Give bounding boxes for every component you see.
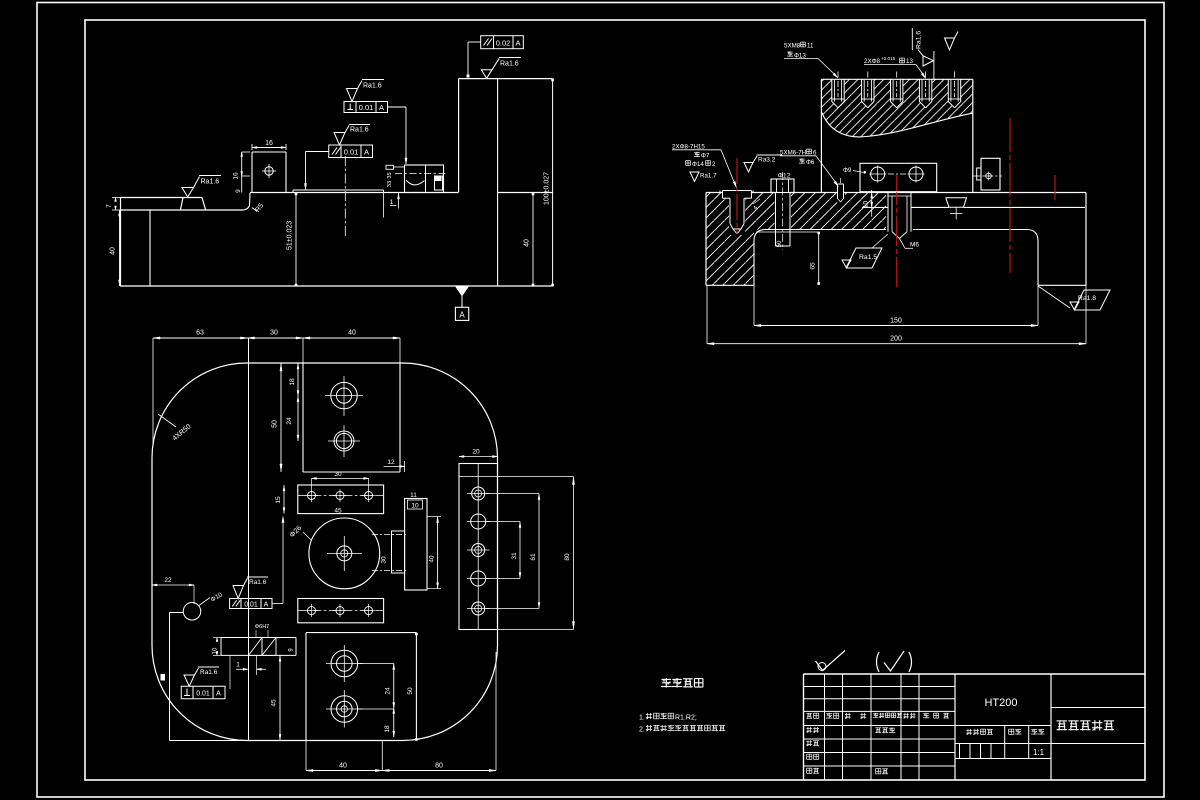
- parallelism frame 0.01 A: [329, 145, 373, 158]
- svg-text:1: 1: [236, 662, 240, 669]
- stop block: [251, 152, 253, 193]
- svg-text:5XM8: 5XM8: [784, 43, 801, 50]
- svg-text:16: 16: [233, 172, 240, 180]
- svg-text:Ra1.6: Ra1.6: [200, 669, 218, 676]
- dim 51±0.023: [295, 193, 297, 286]
- svg-text:61: 61: [530, 553, 537, 561]
- dim 40 (right step height): [532, 193, 534, 287]
- upper boss circle 1 (washer): [331, 382, 357, 408]
- base top band lower line: [862, 206, 888, 208]
- dim 50 (upper boss): [280, 363, 282, 472]
- dim 45 (bottom left): [279, 655, 281, 740]
- dims 24/18 (lower boss): [393, 664, 395, 738]
- svg-text:45: 45: [334, 508, 342, 515]
- svg-text:Ra1.6: Ra1.6: [363, 83, 382, 90]
- svg-text:35: 35: [387, 172, 393, 178]
- countersunk screw right: [946, 198, 967, 208]
- dim 18/24 (upper boss): [297, 363, 299, 441]
- Ra3.2 flag: [744, 163, 753, 173]
- corner notch edges: [169, 613, 171, 741]
- base bottom edges (feet): [706, 284, 754, 286]
- svg-text:50: 50: [777, 240, 783, 247]
- dim 40 (bushing plate): [437, 517, 439, 589]
- svg-text:Φ6: Φ6: [806, 159, 815, 166]
- red centerline right pin: [1009, 118, 1011, 273]
- svg-text:30: 30: [270, 330, 278, 337]
- key slot section bar: [221, 637, 296, 639]
- svg-text:40: 40: [524, 239, 531, 247]
- red short centerline far right: [1054, 175, 1056, 200]
- central boss circle Φ26: [309, 518, 380, 589]
- svg-text:22: 22: [164, 577, 172, 584]
- red centerline middle: [896, 175, 898, 290]
- svg-text:33: 33: [387, 181, 393, 187]
- svg-text:40: 40: [110, 247, 117, 255]
- svg-text:0.01: 0.01: [196, 691, 210, 698]
- jig plate 5 holes: [459, 464, 498, 630]
- svg-text:+0.015: +0.015: [881, 56, 896, 61]
- svg-text:51±0.023: 51±0.023: [287, 221, 294, 250]
- svg-text:A: A: [216, 691, 221, 698]
- dim 22: [152, 584, 194, 586]
- dim 31: [519, 522, 521, 579]
- svg-text:30: 30: [334, 471, 342, 478]
- lower guide plate (3 holes): [298, 599, 384, 623]
- pocket outline: [754, 230, 886, 286]
- small flag top-right corner: [945, 38, 955, 50]
- svg-text:15: 15: [275, 496, 282, 504]
- svg-text:45: 45: [271, 699, 278, 707]
- perpendicularity frame 0.01 A: [344, 102, 388, 113]
- title block table: [804, 673, 1146, 675]
- Ra1.6 flag above parallelism frame: [334, 133, 345, 146]
- bushing mount plate right: [405, 499, 427, 591]
- svg-text:40: 40: [348, 330, 356, 337]
- clamp plate with two rivets: [860, 163, 937, 191]
- dim 20: [459, 456, 498, 458]
- svg-text:0.01: 0.01: [244, 602, 258, 609]
- svg-text:Ra1.7: Ra1.7: [700, 173, 717, 180]
- Ra1.5 flag parallelogram: [846, 248, 882, 268]
- svg-text:Φ14: Φ14: [692, 161, 704, 168]
- dim 30 (guide plate): [312, 477, 369, 479]
- svg-text:A: A: [364, 148, 369, 157]
- perpendicularity frame 0.01 A (plan): [181, 686, 225, 699]
- label M6: [900, 239, 906, 249]
- parallelism frame 0.02 A (top): [481, 36, 524, 49]
- tall column top edge: [459, 78, 553, 80]
- svg-text:11: 11: [410, 492, 417, 499]
- M6 stud small: [837, 184, 839, 199]
- dim 10 (slot): [213, 637, 221, 639]
- body bottom edge: [120, 285, 553, 287]
- svg-text:1:1: 1:1: [1033, 748, 1045, 757]
- bracketed check symbol ( v ): [877, 652, 880, 672]
- svg-text:1.: 1.: [639, 715, 645, 722]
- upper guide plate (3 holes): [298, 485, 384, 514]
- dim 61: [538, 494, 540, 609]
- cap screw 4 in counterbore: [918, 79, 920, 101]
- body left edge: [120, 198, 122, 287]
- screw counterbores (blanked): [832, 79, 844, 101]
- svg-text:2.: 2.: [639, 727, 645, 734]
- dim 7 (left plate): [112, 197, 120, 199]
- svg-text:A: A: [459, 311, 465, 320]
- dim 65: [818, 232, 820, 284]
- Ra1.6 flag on column top: [481, 70, 492, 79]
- top dim extension lines: [152, 338, 154, 445]
- top dimension line 63/30/40: [153, 337, 400, 339]
- svg-text:A: A: [379, 103, 384, 112]
- svg-text:16: 16: [265, 140, 273, 147]
- svg-text:R1.R2;: R1.R2;: [675, 715, 697, 722]
- svg-text:Φ7: Φ7: [701, 153, 710, 160]
- drill bushing assembly: [405, 165, 444, 193]
- 4XR50 label: [158, 414, 176, 427]
- svg-text:Ra1.6: Ra1.6: [201, 179, 220, 186]
- dim 16/9 (block left): [241, 152, 243, 193]
- base right edge: [1085, 193, 1087, 286]
- long vertical edge x=248.5: [248, 338, 250, 741]
- svg-text:HT200: HT200: [984, 697, 1017, 709]
- leader up from frame: [272, 603, 283, 605]
- svg-text:0.01: 0.01: [359, 103, 374, 112]
- svg-text:2XΦ8: 2XΦ8: [864, 58, 881, 65]
- cells: 阶段标记 重量 比例: [967, 729, 969, 735]
- svg-text:13: 13: [906, 58, 913, 65]
- blank holes in base: [722, 190, 753, 199]
- svg-text:Φ12: Φ12: [778, 173, 791, 180]
- svg-text:7: 7: [106, 204, 113, 208]
- Ra1.6 flag above perpendicularity frame: [347, 89, 358, 102]
- bushing centerline: [395, 173, 448, 175]
- Ra1.6 flag above frame: [233, 586, 244, 599]
- svg-text:10: 10: [863, 201, 870, 209]
- svg-text:18: 18: [289, 378, 296, 386]
- svg-text:50: 50: [272, 420, 279, 428]
- cap screw 1 in counterbore: [831, 79, 833, 101]
- svg-text:A: A: [264, 602, 269, 609]
- M6 tapped hole center: [887, 193, 889, 232]
- surface finish check symbol with circle: [818, 663, 826, 671]
- svg-text:100±0.027: 100±0.027: [544, 172, 551, 205]
- svg-text:24: 24: [385, 687, 392, 695]
- svg-text:Ra3.2: Ra3.2: [758, 157, 776, 164]
- svg-text:12: 12: [387, 459, 395, 466]
- lower boss circle 2 (screw): [331, 696, 358, 723]
- dim 200: [706, 285, 708, 343]
- base top surface: [706, 192, 723, 194]
- svg-text:Ra1.6: Ra1.6: [249, 579, 267, 586]
- small solid mark: [161, 674, 166, 681]
- inner step vertical edge: [149, 210, 151, 286]
- svg-text:Φ9: Φ9: [843, 167, 852, 174]
- svg-text:18: 18: [384, 725, 391, 733]
- svg-text:40: 40: [339, 763, 347, 770]
- svg-text:24: 24: [286, 417, 293, 425]
- label Φ26: [303, 532, 311, 540]
- red centerline screw: [736, 158, 738, 234]
- drill template block outline: [821, 78, 972, 80]
- cap screw 3 in counterbore: [890, 79, 892, 101]
- hex bolt Φ12: [771, 179, 794, 193]
- dim 16 (block width): [252, 147, 286, 149]
- leader line to bushing from perpendicularity frame: [388, 106, 407, 108]
- cap screw 2 in counterbore: [861, 79, 863, 101]
- svg-text:65: 65: [810, 262, 817, 270]
- socket screw body: [719, 191, 721, 193]
- svg-text:31: 31: [511, 552, 518, 560]
- base hatched section: [706, 193, 886, 286]
- svg-text:Φ6H7: Φ6H7: [255, 624, 269, 630]
- thin wear plate on top: [293, 189, 384, 191]
- heading 技术要求: [662, 678, 672, 680]
- drill template block hatched region: [821, 79, 972, 137]
- center dash-dot line: [344, 156, 346, 238]
- dim 50 (lower boss right): [415, 633, 418, 636]
- dim 10 (top band): [871, 190, 873, 217]
- svg-text:40: 40: [429, 555, 436, 563]
- dim 80 (right): [573, 477, 575, 630]
- upper boss circle 2: [334, 431, 354, 451]
- tall column left edge: [458, 79, 460, 192]
- parallelism frame 0.01 A (plan): [230, 599, 272, 609]
- template bottom curve: [821, 112, 972, 137]
- svg-text:63: 63: [196, 330, 204, 337]
- svg-text:A: A: [515, 39, 520, 48]
- svg-text:11: 11: [807, 43, 814, 50]
- main top surface: [250, 192, 459, 194]
- dim 40 (left height): [119, 210, 121, 286]
- svg-text:Ra1.6: Ra1.6: [500, 61, 519, 68]
- svg-text:Ra1.8: Ra1.8: [1078, 295, 1096, 302]
- svg-text:0.01: 0.01: [344, 148, 359, 157]
- svg-text:150: 150: [890, 318, 902, 325]
- locating pad boss: [183, 197, 202, 199]
- datum A symbol below: [456, 287, 469, 296]
- svg-text:30: 30: [381, 556, 388, 564]
- svg-text:Ra1.5: Ra1.5: [859, 254, 877, 261]
- lower boss rectangle: [305, 633, 307, 741]
- svg-text:80: 80: [435, 763, 443, 770]
- Ra1.6 flag above perp frame: [184, 675, 195, 686]
- lower boss circle 1: [331, 650, 358, 677]
- title rows: 设计/制图/审核/工艺 + 标准化/批准: [807, 727, 809, 733]
- locating pin block right: [981, 158, 1000, 190]
- svg-text:M6: M6: [910, 242, 919, 249]
- leader from 0.02 frame to column top: [468, 41, 481, 43]
- base plate rounded outline: [152, 363, 498, 741]
- title row: 标记 处数 分区 更改文件号 签名 年月日: [806, 712, 812, 714]
- left plate top surface: [120, 197, 183, 199]
- Ra1.6 flag on locating pad: [182, 188, 194, 198]
- svg-text:50: 50: [407, 687, 414, 695]
- stop block hole crosshair: [265, 167, 273, 175]
- R5 fillet curve: [243, 193, 250, 210]
- svg-text:80: 80: [564, 553, 571, 561]
- right edge / dim 100 extension: [552, 79, 554, 286]
- svg-text:0.02: 0.02: [496, 39, 511, 48]
- rotated Ra1.6 at block right: [911, 28, 913, 50]
- upper boss rectangle: [302, 363, 304, 472]
- svg-text:1: 1: [390, 199, 394, 206]
- dim 1 (wear plate) + extension lines: [383, 193, 385, 218]
- dim 150: [753, 285, 755, 325]
- Ra1.8 flag bottom right: [1038, 286, 1070, 308]
- dim 15: [283, 485, 285, 514]
- svg-text:Ra1.6: Ra1.6: [916, 31, 923, 49]
- hole Φ10: [183, 603, 201, 621]
- cap screw 5 in counterbore: [947, 79, 949, 101]
- svg-text:20: 20: [472, 449, 480, 456]
- bushing small dims 35/33: [386, 165, 394, 169]
- left plate lower edge: [120, 209, 243, 211]
- base left edge: [705, 193, 707, 286]
- svg-text:200: 200: [890, 336, 902, 343]
- part name 钻床夹具体: [1057, 720, 1067, 722]
- leader from parallelism frame to wear plate: [306, 151, 329, 153]
- svg-text:10: 10: [411, 502, 419, 509]
- svg-text:9: 9: [235, 189, 242, 193]
- column inner corner edge: [497, 79, 499, 286]
- svg-text:Ra1.6: Ra1.6: [350, 127, 369, 134]
- svg-text:2: 2: [712, 161, 716, 168]
- bottom dims 40/80: [305, 741, 307, 771]
